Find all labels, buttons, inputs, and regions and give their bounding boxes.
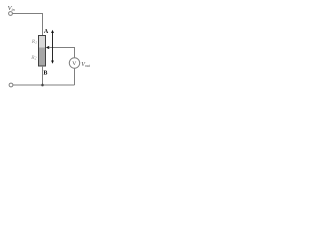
wiper arrowhead (points left into pot body) bbox=[46, 46, 49, 49]
svg-text:A: A bbox=[44, 29, 49, 35]
wire: voltmeter to bottom rail bbox=[74, 68, 76, 85]
potentiometer body: upper section R1 bbox=[39, 36, 46, 48]
voltmeter V1 bbox=[69, 58, 79, 68]
wire: Vin terminal to top of potentiometer bbox=[13, 14, 43, 36]
wire: wiper to voltmeter bbox=[49, 48, 75, 59]
potentiometer body: lower section R2 bbox=[39, 48, 46, 67]
bottom rail wire bbox=[13, 84, 75, 86]
output terminal (open circle, bottom left) bbox=[9, 83, 13, 87]
svg-text:B: B bbox=[43, 70, 47, 76]
svg-text:V: V bbox=[72, 61, 76, 67]
input terminal (open circle) bbox=[9, 12, 13, 16]
svg-text:Vin: Vin bbox=[8, 5, 15, 12]
potentiometer outline bbox=[39, 36, 46, 67]
wire: pot bottom to ground rail bbox=[42, 66, 44, 85]
wiper travel double arrow bbox=[51, 30, 54, 64]
junction dot bbox=[41, 84, 44, 87]
